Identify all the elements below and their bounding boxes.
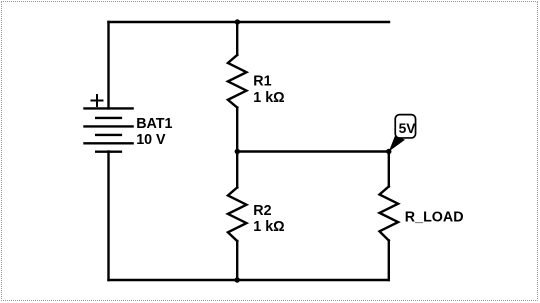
svg-text:BAT1: BAT1 [136, 116, 172, 132]
svg-text:R_LOAD: R_LOAD [405, 209, 464, 225]
svg-text:1 kΩ: 1 kΩ [253, 219, 284, 235]
svg-text:10 V: 10 V [136, 132, 166, 148]
svg-text:R1: R1 [253, 74, 271, 90]
svg-text:5V: 5V [399, 121, 417, 136]
svg-text:1 kΩ: 1 kΩ [253, 90, 284, 106]
svg-text:R2: R2 [253, 203, 271, 219]
